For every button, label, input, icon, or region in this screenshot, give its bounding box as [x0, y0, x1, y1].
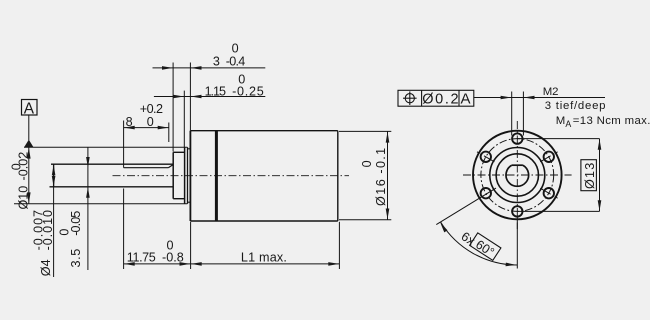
label 60 box: [469, 233, 501, 262]
collar Ø10: [185, 147, 191, 204]
svg-text:Ø0.2: Ø0.2: [422, 92, 460, 108]
svg-text:Ø16: Ø16: [374, 178, 388, 206]
label Ø16 -0.1: [360, 146, 388, 206]
hole M2 lower-left: [481, 188, 491, 198]
svg-text:M: M: [556, 115, 566, 127]
label Ø13 box: [581, 160, 597, 191]
label 8 +0.2/0: [126, 102, 163, 129]
centerline horizontal: [463, 174, 572, 176]
label Ø4 -0.007/-0.010: [31, 209, 55, 276]
angle dim leg vertical: [516, 217, 518, 269]
feature control frame: [398, 90, 474, 107]
svg-text:+0.2: +0.2: [140, 102, 163, 116]
svg-text:8: 8: [126, 115, 133, 129]
svg-text:Ø4: Ø4: [39, 259, 53, 276]
centerline side view: [113, 175, 350, 177]
svg-text:-0.25: -0.25: [232, 84, 264, 98]
angle dim arc: [440, 222, 517, 266]
svg-text:Ø13: Ø13: [583, 162, 597, 189]
dim M2 dimension line: [474, 92, 605, 136]
svg-text:A: A: [24, 100, 35, 117]
label 11.75 -0.8: [127, 239, 184, 265]
dim 3.5 dimension line: [86, 148, 90, 271]
shaft flat: [124, 165, 173, 168]
label 3.5 -0.05: [58, 211, 83, 268]
label Ø10 -0.02: [10, 152, 31, 210]
shaft circle with flat: [506, 165, 529, 186]
spoke 150: [477, 152, 494, 162]
svg-text:3 tief/deep: 3 tief/deep: [545, 100, 606, 112]
datum A box: [22, 100, 38, 118]
svg-text:11.75: 11.75: [127, 250, 156, 264]
svg-text:3.5: 3.5: [69, 248, 83, 267]
dim Ø4 dimension line: [52, 164, 56, 277]
svg-text:0: 0: [232, 41, 239, 55]
ext line Ø10 bottom: [14, 203, 187, 205]
label MA=13 Ncm max.: [556, 115, 650, 129]
angle dim leg 210: [436, 188, 496, 225]
spoke 30: [540, 152, 557, 162]
dim Ø16 dimension: [339, 131, 391, 219]
svg-text:0: 0: [147, 115, 154, 129]
ext line Ø10 top: [24, 146, 187, 148]
flange outer circle Ø16: [473, 131, 562, 220]
datum A triangle: [24, 140, 33, 148]
hole M2 lower-right: [544, 188, 554, 198]
svg-text:3: 3: [213, 54, 220, 68]
joint line gearhead/motor: [215, 131, 218, 221]
hole M2 upper-right: [544, 152, 554, 162]
label 1.15 -0.25: [205, 72, 265, 98]
dim 1.15 -0.25 dimension: [154, 91, 265, 148]
circle Ø10 boss: [490, 148, 545, 203]
svg-text:-0.4: -0.4: [226, 54, 245, 68]
label 3 -0.4: [213, 41, 245, 68]
spoke 330: [540, 188, 557, 198]
centerline vertical: [516, 121, 518, 229]
shaft Ø4: [50, 164, 174, 187]
datum A leader: [28, 115, 30, 140]
dim 8 +0.2 dimension: [124, 121, 169, 168]
svg-text:Ø10: Ø10: [17, 186, 31, 210]
svg-text:-0.1: -0.1: [374, 146, 388, 173]
circle bearing: [496, 154, 538, 196]
hole M2 top: [512, 133, 522, 143]
svg-text:A: A: [565, 119, 571, 129]
svg-text:-0.007: -0.007: [31, 209, 45, 250]
dim Ø10 dimension line: [27, 147, 31, 204]
svg-text:0: 0: [10, 163, 24, 170]
svg-text:0: 0: [360, 160, 374, 167]
boss front Ø8.6: [173, 152, 184, 198]
dim 11.75 / L1 dimension: [124, 189, 340, 270]
svg-text:-0.8: -0.8: [162, 250, 184, 264]
svg-text:L1 max.: L1 max.: [241, 250, 287, 264]
hole M2 upper-left: [481, 152, 491, 162]
hole M2 bottom: [512, 206, 522, 216]
svg-text:A: A: [460, 91, 470, 108]
bolt circle Ø13: [481, 139, 554, 212]
dim 3 -0.4 dimension: [153, 63, 266, 152]
svg-text:0: 0: [58, 229, 72, 236]
motor body outline: [190, 131, 337, 221]
dim Ø13 dimension: [518, 139, 602, 212]
svg-text:=13 Ncm max.: =13 Ncm max.: [573, 115, 650, 127]
svg-text:M2: M2: [543, 86, 559, 98]
svg-text:1.15: 1.15: [205, 84, 226, 98]
